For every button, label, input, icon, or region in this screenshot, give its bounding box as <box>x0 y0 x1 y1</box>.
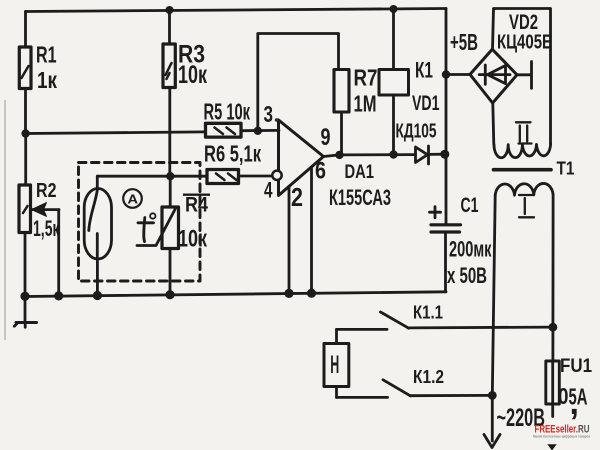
svg-text:DA1: DA1 <box>345 161 375 183</box>
svg-text:К1.2: К1.2 <box>413 367 444 387</box>
svg-text:200мк: 200мк <box>449 237 492 262</box>
svg-text:2: 2 <box>291 182 303 212</box>
svg-text:0: 0 <box>558 383 569 409</box>
svg-text:А: А <box>128 192 139 207</box>
svg-text:R7: R7 <box>354 65 378 91</box>
svg-text:R5 10к: R5 10к <box>204 99 251 125</box>
svg-text:9: 9 <box>321 124 331 151</box>
svg-text:С1: С1 <box>461 194 479 217</box>
svg-text:VD1: VD1 <box>412 92 440 115</box>
svg-text:КД105: КД105 <box>396 121 437 143</box>
svg-text:К155СА3: К155СА3 <box>329 185 391 210</box>
svg-text:10к: 10к <box>178 226 208 253</box>
svg-text:4: 4 <box>264 178 273 203</box>
svg-text:6: 6 <box>315 158 326 185</box>
svg-text:FU1: FU1 <box>560 356 592 377</box>
svg-text:КЦ405Е: КЦ405Е <box>497 32 552 54</box>
svg-text:Т1: Т1 <box>557 158 575 179</box>
svg-text:К1: К1 <box>415 58 433 83</box>
svg-text:,: , <box>570 384 579 422</box>
svg-text:К1.1: К1.1 <box>413 303 443 323</box>
svg-text:3: 3 <box>264 101 274 127</box>
svg-text:1М: 1М <box>354 91 377 117</box>
svg-text:10к: 10к <box>178 61 207 89</box>
svg-text:R4: R4 <box>185 194 208 217</box>
svg-text:х 50В: х 50В <box>447 263 487 288</box>
svg-text:Мания бесплатных цифровых това: Мания бесплатных цифровых товаров <box>533 434 590 439</box>
svg-text:1,5к: 1,5к <box>33 216 60 241</box>
svg-text:R1: R1 <box>36 42 57 68</box>
svg-text:R2: R2 <box>36 180 57 202</box>
svg-text:1к: 1к <box>37 67 57 93</box>
svg-text:Н: Н <box>330 351 339 379</box>
svg-text:+5В: +5В <box>450 29 478 55</box>
svg-text:R6 5,1к: R6 5,1к <box>204 141 261 167</box>
